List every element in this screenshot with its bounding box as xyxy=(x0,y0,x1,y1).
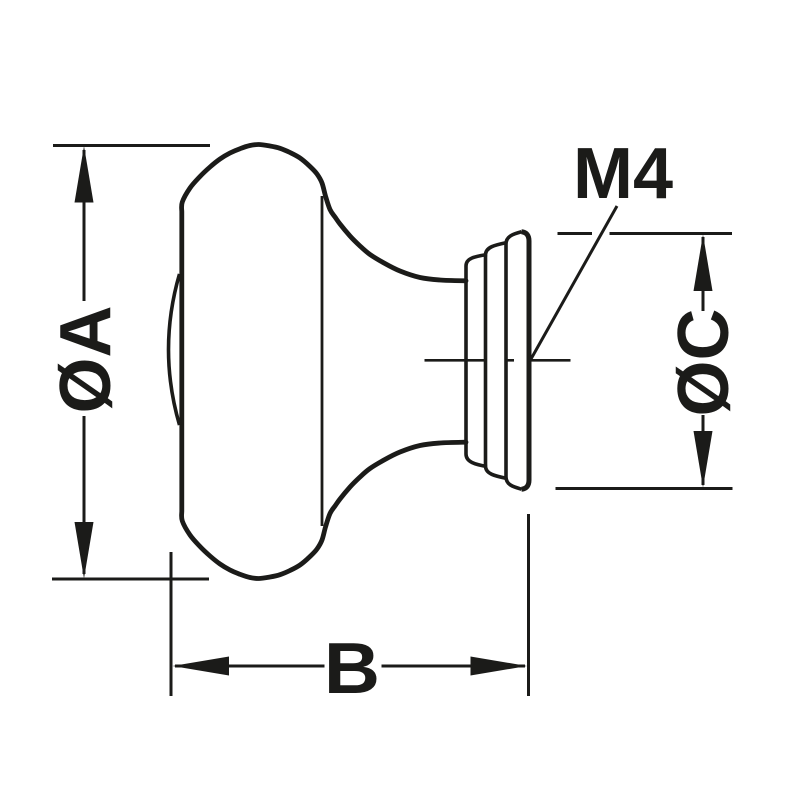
knob face edge line xyxy=(321,196,324,526)
dim C dimension line xyxy=(702,237,705,311)
svg-text:ØC: ØC xyxy=(664,309,744,417)
dim A bottom extension line xyxy=(52,578,209,581)
center line xyxy=(425,359,486,362)
dim B left extension line xyxy=(170,552,173,696)
knob face bulge arc xyxy=(169,274,180,425)
flange base face xyxy=(522,232,530,489)
svg-text:M4: M4 xyxy=(573,134,673,214)
svg-text:B: B xyxy=(324,628,380,709)
svg-text:ØA: ØA xyxy=(46,306,126,414)
dim C top extension line xyxy=(558,232,593,235)
dim B arrow left xyxy=(173,657,230,676)
dim C arrow up xyxy=(694,235,713,292)
dim A dimension line xyxy=(83,150,86,301)
dim A arrow down xyxy=(75,522,94,579)
flange ring 3 xyxy=(506,232,522,489)
flange ring 1 xyxy=(466,255,487,467)
dim A arrow up xyxy=(75,146,94,203)
dim B dimension line xyxy=(175,665,325,668)
knob head and neck outline xyxy=(182,144,466,578)
leader line M4 xyxy=(531,206,617,359)
dim C arrow down xyxy=(694,431,713,488)
dim B arrow right xyxy=(471,657,528,676)
flange ring 2 xyxy=(486,243,508,479)
dim C bottom extension line xyxy=(556,487,733,490)
dim B right extension line xyxy=(527,514,530,696)
dim A top extension line xyxy=(53,144,210,147)
